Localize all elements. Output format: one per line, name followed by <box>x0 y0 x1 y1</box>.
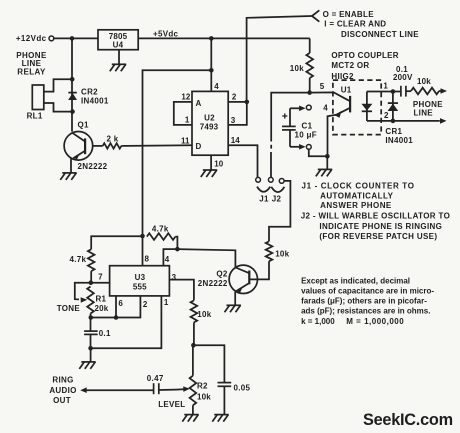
svg-text:RELAY: RELAY <box>17 68 46 77</box>
resistor 10k phone line <box>411 88 439 95</box>
junction CR1 bottom <box>391 119 396 124</box>
wire pin 7 stub <box>91 282 110 284</box>
wire 10k to R2 node <box>193 322 195 345</box>
node J contact middle <box>268 177 273 182</box>
svg-text:0.1: 0.1 <box>99 329 111 338</box>
wire +12V input to regulator <box>54 37 98 39</box>
svg-text:Q1: Q1 <box>78 121 90 130</box>
wire opto pin 5 lead <box>310 92 350 101</box>
svg-text:3: 3 <box>231 116 236 125</box>
capacitor 0.05 <box>218 382 232 384</box>
wire U2 pins 12-1 loop <box>174 102 192 125</box>
opto U1 dashed box <box>333 80 381 135</box>
svg-text:AUTOMATICALLY: AUTOMATICALLY <box>320 191 393 200</box>
ground under opto <box>316 169 332 176</box>
node +12Vdc input terminal <box>49 36 54 41</box>
resistor 10k pin3 <box>191 300 198 322</box>
svg-text:IN4001: IN4001 <box>81 97 109 106</box>
svg-text:2N2222: 2N2222 <box>78 162 108 171</box>
svg-text:14: 14 <box>231 136 240 145</box>
diode CR2 1N4001 flyback <box>68 92 76 94</box>
wire Q1 base to 2k <box>93 145 103 147</box>
junction pin4 ground node <box>325 154 330 159</box>
wire dash-dot segment <box>270 145 272 149</box>
phototransistor emitter to pin 4 <box>336 108 350 115</box>
arrowhead R1 wiper <box>81 297 88 303</box>
svg-text:LINE: LINE <box>414 108 434 117</box>
svg-text:U4: U4 <box>113 41 124 50</box>
svg-text:R2: R2 <box>197 381 208 390</box>
resistor 4.7k vertical <box>88 249 95 271</box>
svg-text:+12Vdc: +12Vdc <box>16 34 47 43</box>
wire to 0.05 cap <box>193 345 224 382</box>
svg-text:4: 4 <box>323 103 328 112</box>
wire lower contact to ground node <box>309 149 328 156</box>
svg-text:J1: J1 <box>259 195 269 204</box>
junction opto pin 5 node <box>307 90 312 95</box>
svg-text:D: D <box>196 142 202 151</box>
svg-text:4: 4 <box>165 255 170 264</box>
svg-text:OPTO COUPLER: OPTO COUPLER <box>331 51 398 60</box>
resistor 4.7k horizontal <box>147 233 176 240</box>
svg-text:J2: J2 <box>272 195 282 204</box>
wire +12V down to Q1 collector <box>71 38 73 131</box>
arrowhead phone line upper <box>441 88 448 94</box>
svg-text:RL1: RL1 <box>27 111 43 120</box>
svg-text:CR2: CR2 <box>81 88 98 97</box>
junction pin 7 node <box>89 280 94 285</box>
wire pins 6 and 2 <box>91 296 141 318</box>
wire 10k to pin5 node <box>309 78 311 93</box>
junction 0.1 ground node <box>88 346 93 351</box>
svg-text:10k: 10k <box>417 77 431 86</box>
resistor 10k J2 to Q2 base <box>266 241 273 261</box>
svg-text:10 μF: 10 μF <box>295 131 317 140</box>
switch enable contacts <box>312 10 319 16</box>
wire relay top lead <box>44 79 72 91</box>
relay RL1 coil box <box>32 85 44 110</box>
resistor 2k <box>103 143 122 148</box>
svg-text:2N2222: 2N2222 <box>198 279 228 288</box>
svg-text:1: 1 <box>383 81 388 90</box>
svg-text:0.05: 0.05 <box>234 384 251 393</box>
wire ground stem opto <box>326 156 328 169</box>
svg-text:Except as indicated, decimal: Except as indicated, decimal <box>301 276 410 285</box>
svg-text:10: 10 <box>214 160 223 169</box>
wire C1 top lead <box>289 108 291 126</box>
arrow C1 to lower contact <box>290 146 301 148</box>
svg-text:AUDIO: AUDIO <box>49 386 76 395</box>
svg-text:U2: U2 <box>204 114 215 123</box>
wire +5V rail <box>138 37 310 39</box>
svg-text:2: 2 <box>143 300 148 309</box>
ground under R2 <box>182 415 198 422</box>
capacitor C1 10uF <box>282 125 296 127</box>
svg-text:4.7k: 4.7k <box>70 255 87 264</box>
wire +5V to U2 pin 4 <box>210 38 212 91</box>
junction 4.7k pin4 Q2 <box>175 247 180 252</box>
ground under Q1 <box>60 173 76 180</box>
wire 2k to U2 pin 11 <box>121 144 192 147</box>
jack plug arcs <box>257 187 270 192</box>
svg-text:20k: 20k <box>95 304 109 313</box>
svg-text:LEVEL: LEVEL <box>158 400 185 409</box>
transistor Q2 2N2222 <box>229 265 257 293</box>
svg-text:1: 1 <box>185 116 190 125</box>
wire 4.7k to pin7 node <box>90 271 92 283</box>
wire 4.7k right corner down <box>175 237 177 250</box>
ground under U4 <box>110 64 126 71</box>
svg-text:ads (pF); resistances are in o: ads (pF); resistances are in ohms. <box>301 307 430 316</box>
svg-text:M = 1,000,000: M = 1,000,000 <box>346 317 404 326</box>
svg-text:O = ENABLE: O = ENABLE <box>323 10 375 19</box>
wire R1 wiper loop <box>75 283 91 300</box>
junction relay bottom <box>70 109 75 114</box>
wire junction to Q2 collector <box>177 249 235 267</box>
svg-text:(FOR REVERSE PATCH USE): (FOR REVERSE PATCH USE) <box>319 232 437 241</box>
capacitor 0.1 tone <box>90 318 92 332</box>
svg-text:8: 8 <box>145 255 150 264</box>
wire opto bottom rail <box>367 120 440 122</box>
arrow C1 to upper contact <box>290 107 301 109</box>
node J contact right <box>279 179 284 184</box>
junction relay top <box>70 77 75 82</box>
svg-text:7493: 7493 <box>200 123 219 132</box>
junction pin 2 enable line <box>245 100 250 105</box>
svg-text:7805: 7805 <box>109 32 128 41</box>
wire +5V corner down to 10k <box>309 38 311 53</box>
wire pin5 node left corner <box>271 93 309 142</box>
svg-text:RING: RING <box>52 375 73 384</box>
junction +5V at pin4 drop <box>209 36 214 41</box>
arrow ring audio out <box>85 389 154 391</box>
svg-text:2: 2 <box>232 93 237 102</box>
wire R1 to junction <box>90 314 92 318</box>
opto LED <box>366 92 368 121</box>
potentiometer R1 20k <box>87 287 94 314</box>
wire ground stem 555 <box>90 348 92 362</box>
svg-text:555: 555 <box>133 282 147 291</box>
diode CR1 1N4001 <box>392 92 394 121</box>
junction pin 6 <box>114 315 119 320</box>
svg-text:farads (μF); others are in pic: farads (μF); others are in picofar- <box>301 297 427 306</box>
ground under U2 <box>201 170 217 177</box>
svg-text:SeekIC.com: SeekIC.com <box>363 411 453 429</box>
wire 555 pin 3 <box>169 280 194 301</box>
junction main vertical 4.7k <box>140 234 145 239</box>
svg-text:values of capacitance are in m: values of capacitance are in micro- <box>301 286 434 295</box>
junction CR1 top <box>391 89 396 94</box>
wire Q1 emitter to ground <box>70 159 72 173</box>
node enable contact upper <box>306 105 311 110</box>
svg-text:6: 6 <box>118 299 123 308</box>
junction R1 bottom <box>89 315 94 320</box>
wire 10k to arrow <box>439 90 441 92</box>
svg-text:DISCONNECT LINE: DISCONNECT LINE <box>341 30 419 39</box>
wire down to J middle contact <box>270 152 272 177</box>
svg-text:12: 12 <box>181 93 190 102</box>
timer U3 555 box <box>110 266 170 296</box>
svg-text:MCT2 OR: MCT2 OR <box>331 61 369 70</box>
svg-text:IN4001: IN4001 <box>385 136 413 145</box>
ground under 0.05 <box>212 415 228 422</box>
svg-text:C1: C1 <box>302 122 313 131</box>
phototransistor base bar <box>349 96 351 113</box>
arrowhead phone line lower <box>440 118 447 124</box>
svg-text:INDICATE PHONE IS RINGING: INDICATE PHONE IS RINGING <box>319 222 442 231</box>
svg-text:ANSWER PHONE: ANSWER PHONE <box>320 201 392 210</box>
svg-text:R1: R1 <box>96 295 107 304</box>
wire C1 bottom lead <box>289 130 291 147</box>
svg-text:10k: 10k <box>197 393 211 402</box>
svg-text:2 k: 2 k <box>107 135 119 144</box>
svg-text:10k: 10k <box>197 310 211 319</box>
voltage regulator U4 7805 <box>98 30 138 50</box>
wire U4 ground stem <box>118 50 120 65</box>
resistor 10k pullup <box>306 53 313 78</box>
wire relay bottom lead <box>44 103 73 112</box>
transistor Q1 2N2222 <box>64 132 93 161</box>
wire enable line down to pin 2 <box>247 16 312 102</box>
wire cap to 10k <box>406 90 411 92</box>
wire 10k to Q2 base <box>250 261 269 279</box>
svg-text:11: 11 <box>181 136 190 145</box>
svg-text:U1: U1 <box>341 86 352 95</box>
wire junction to 555 pin 4 <box>163 249 177 266</box>
svg-text:10k: 10k <box>290 64 304 73</box>
svg-text:TONE: TONE <box>57 304 81 313</box>
junction pin4 branch <box>209 68 214 73</box>
node J contact left <box>256 177 261 182</box>
wire R2 to ground <box>192 405 194 414</box>
wire U2 pin 10 stub <box>210 155 212 170</box>
svg-text:2: 2 <box>384 111 389 120</box>
svg-text:7: 7 <box>98 272 103 281</box>
svg-text:J1 - CLOCK COUNTER TO: J1 - CLOCK COUNTER TO <box>302 181 415 190</box>
svg-text:A: A <box>196 99 202 108</box>
svg-text:1: 1 <box>164 298 169 307</box>
wire opto top rail <box>367 91 400 93</box>
svg-text:+5Vdc: +5Vdc <box>153 30 179 39</box>
wire pin 1 to ground run <box>91 296 162 348</box>
svg-text:CR1: CR1 <box>385 127 402 136</box>
svg-text:J2 - WILL WARBLE OSCILLATOR TO: J2 - WILL WARBLE OSCILLATOR TO <box>301 212 450 221</box>
svg-text:0.47: 0.47 <box>147 374 164 383</box>
ground under Q2 <box>225 305 241 312</box>
junction R2 node <box>191 343 196 348</box>
svg-text:10k: 10k <box>275 250 289 259</box>
svg-text:200V: 200V <box>393 73 413 82</box>
wire Q2 emitter to ground <box>234 292 236 306</box>
svg-text:5: 5 <box>320 82 325 91</box>
wire J right contact to 10k <box>269 181 290 242</box>
wire branch to main vertical <box>143 70 212 265</box>
svg-text:4.7k: 4.7k <box>152 224 169 233</box>
potentiometer R2 10k <box>192 345 194 376</box>
counter U2 7493 box <box>192 91 228 155</box>
svg-text:k = 1,000: k = 1,000 <box>301 317 335 326</box>
capacitor 0.1 200V <box>400 86 402 97</box>
wire 0.47 to R2 wiper <box>159 389 176 391</box>
wire left to 4.7k vertical <box>91 236 142 249</box>
svg-text:U3: U3 <box>135 273 146 282</box>
junction +12V rail <box>70 36 75 41</box>
svg-text:I = CLEAR AND: I = CLEAR AND <box>324 20 386 29</box>
svg-text:Q2: Q2 <box>216 269 228 278</box>
capacitor 0.47 <box>153 383 155 394</box>
wire U2 pin 14 to J1 <box>228 145 257 177</box>
node enable contact lower <box>306 145 311 150</box>
ground under 555 area <box>79 362 95 369</box>
arrowhead R2 wiper <box>183 386 190 392</box>
svg-text:OUT: OUT <box>53 396 71 405</box>
svg-text:3: 3 <box>172 273 177 282</box>
wire U2 pin 2 stub <box>228 101 247 103</box>
wire U2 pin 3 stub <box>228 102 247 125</box>
svg-text:4: 4 <box>214 82 219 91</box>
